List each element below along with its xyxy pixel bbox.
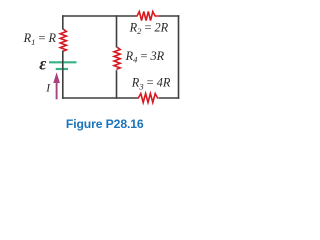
current arrow I (head)	[53, 72, 60, 83]
resistor R2 (zigzag on top wire)	[136, 12, 159, 21]
wire: top-right horizontal segment	[159, 15, 179, 17]
wire: left side lower segment (through battery)	[62, 51, 64, 99]
wire: middle branch lower segment	[116, 70, 118, 99]
svg-text:R2 = 2R: R2 = 2R	[129, 21, 169, 37]
svg-text:R3 = 4R: R3 = 4R	[131, 76, 171, 92]
current arrow I (shaft)	[56, 82, 58, 99]
resistor R3 (zigzag on bottom wire)	[138, 94, 159, 103]
svg-text:R1 = R: R1 = R	[23, 31, 57, 47]
resistor R1 (zigzag on left branch)	[60, 29, 66, 52]
wire: middle branch upper segment	[116, 15, 118, 47]
wire: bottom-right horizontal segment	[159, 97, 180, 99]
svg-text:I: I	[45, 83, 51, 95]
resistor R4 (zigzag on middle branch)	[114, 47, 120, 70]
svg-text:ε: ε	[39, 53, 47, 73]
wire: bottom horizontal segment left of R3	[62, 97, 138, 99]
svg-text:R4 = 3R: R4 = 3R	[125, 49, 165, 65]
battery long plate (+)	[49, 61, 77, 63]
battery short plate (-)	[56, 68, 68, 70]
wire: top-left horizontal segment	[63, 15, 136, 17]
svg-text:Figure P28.16: Figure P28.16	[66, 117, 144, 131]
wire: right vertical side	[178, 15, 180, 99]
wire: left side upper segment	[62, 15, 64, 29]
